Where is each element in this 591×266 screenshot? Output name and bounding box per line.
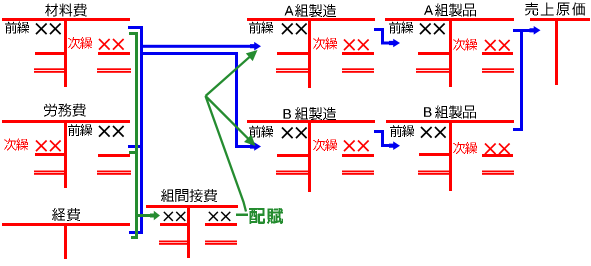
account B組製造: credit double rule <box>342 171 374 175</box>
wire collector to B組製造 (blue): lower horizontal <box>238 145 251 148</box>
account A組製品: credit single rule <box>482 52 513 55</box>
account A組製造: debit 前繰 label <box>249 22 273 34</box>
wire blue collector trunk <box>140 26 143 234</box>
account B組製造: credit 次繰 label <box>313 139 337 151</box>
account B組製造: debit single rule <box>277 154 311 157</box>
wire B組製品 to 売上原価 (blue): riser <box>520 29 523 131</box>
wire B組製造 to B組製品 (blue): riser <box>381 130 384 147</box>
account 材料費: debit amount xx <box>35 23 61 35</box>
account A組製品: credit amount xx <box>484 39 510 51</box>
account B組製品: top rule <box>386 120 514 123</box>
wire B組製造 to B組製品 (blue): upper <box>374 130 384 133</box>
account A組製品: center rule <box>449 18 452 87</box>
account 組間接費: top rule <box>146 205 238 208</box>
account A組製造: credit amount xx <box>343 39 369 51</box>
wire 労務費 to collector (blue) <box>128 145 143 148</box>
account 材料費: credit double rule <box>97 68 131 73</box>
account 材料費: top rule <box>2 18 130 21</box>
account A組製造: top rule <box>247 18 375 21</box>
account 売上原価: center rule <box>555 18 558 85</box>
arrow into A組製造 (blue) <box>250 42 261 51</box>
account A組製造: title <box>285 4 337 17</box>
account 労務費: credit single rule <box>98 154 130 157</box>
account 労務費: credit double rule <box>97 171 131 175</box>
account B組製造: credit amount xx <box>343 140 369 152</box>
account B組製造: debit double rule <box>276 171 311 175</box>
account 組間接費: title <box>161 189 217 202</box>
account 組間接費: debit amount xx <box>163 211 185 221</box>
wire A組製品 to 売上原価 (blue) <box>513 29 530 32</box>
account B組製造: debit amount xx <box>281 127 307 139</box>
account A組製品: top rule <box>385 18 514 21</box>
account 組間接費: credit single rule <box>205 223 237 226</box>
wire A組製造 to A組製品 (blue): upper <box>374 28 384 31</box>
account A組製品: debit amount xx <box>419 23 445 35</box>
account B組製造: credit single rule <box>342 154 374 157</box>
account A組製造: debit single rule <box>277 52 311 55</box>
account A組製品: title <box>424 4 476 17</box>
account A組製品: credit double rule <box>482 68 514 73</box>
account 材料費: title <box>45 4 87 17</box>
account 労務費: debit double rule <box>34 171 67 175</box>
wire collector to B組製造 (blue): riser <box>235 52 238 148</box>
account 労務費: title <box>44 104 86 117</box>
account A組製造: debit amount xx <box>281 23 307 35</box>
wire 材料費 to collector (blue) <box>128 26 143 29</box>
arrow into A組製品 (blue) <box>389 39 400 48</box>
wire 配賦 tick to credit xx (green) <box>236 214 248 217</box>
account B組製品: debit amount xx <box>420 126 446 138</box>
account 労務費: credit amount xx <box>98 125 124 137</box>
account A組製造: credit double rule <box>342 68 374 73</box>
account 労務費: top rule <box>2 120 130 123</box>
account 組間接費: credit double rule <box>205 241 237 245</box>
wire 労務費 to overhead collector (green) <box>129 151 138 154</box>
account B組製造: top rule <box>247 120 375 123</box>
account B組製造: debit 前繰 label <box>249 126 273 138</box>
wire collector to A組製造 (blue) <box>143 45 250 48</box>
account 労務費: debit amount xx <box>35 140 61 152</box>
wire A組製造 to A組製品 (blue): lower <box>381 42 390 45</box>
account B組製品: credit amount xx <box>484 143 510 155</box>
wire A組製造 to A組製品 (blue): riser <box>381 28 384 44</box>
account 売上原価: title <box>525 3 585 16</box>
account 経費: top rule <box>2 223 130 226</box>
wire collector to B組製造 (blue): horizontal <box>143 52 237 55</box>
account 労務費: debit 次繰 label <box>4 139 28 151</box>
wire 配賦 fan to B組製造 (green) <box>206 96 250 140</box>
account B組製品: credit single rule <box>482 154 513 157</box>
arrow into 組間接費 (green) <box>150 211 160 220</box>
account 材料費: debit 前繰 label <box>5 22 29 34</box>
arrow 配賦 into B組製造 (green) <box>244 135 255 146</box>
wire 経費 to overhead collector (green) <box>131 236 138 239</box>
account 労務費: debit single rule <box>35 153 67 156</box>
account 経費: title <box>52 208 80 221</box>
account B組製品: credit double rule <box>482 171 514 175</box>
wire B組製造 to B組製品 (blue): lower <box>381 144 390 147</box>
account 材料費: credit 次繰 label <box>68 37 92 49</box>
account B組製品: center rule <box>449 120 452 191</box>
account 材料費: debit single rule <box>35 52 67 55</box>
account B組製造: center rule <box>308 120 311 192</box>
account A組製造: center rule <box>308 18 311 88</box>
account A組製品: debit single rule <box>418 52 452 55</box>
account A組製造: credit single rule <box>342 52 374 55</box>
account A組製造: debit double rule <box>276 68 311 73</box>
account 経費: center rule <box>64 223 67 259</box>
account A組製品: debit double rule <box>416 68 452 73</box>
account A組製造: credit 次繰 label <box>313 38 337 50</box>
account B組製造: title <box>284 107 337 120</box>
wire 配賦 fan to A組製造 (green) <box>206 56 252 96</box>
account B組製品: debit double rule <box>418 171 452 175</box>
wire green overhead trunk <box>135 32 138 239</box>
wire 経費 to collector (blue) <box>129 231 143 234</box>
account B組製品: title <box>424 106 476 119</box>
account 組間接費: center rule <box>187 205 190 258</box>
account A組製品: debit 前繰 label <box>389 22 413 34</box>
account 組間接費: debit double rule <box>159 241 190 245</box>
account 労務費: credit 前繰 label <box>68 124 92 136</box>
account 材料費: credit amount xx <box>98 38 124 50</box>
label 配賦 (green) <box>249 208 283 224</box>
arrow into B組製造 (blue) <box>250 142 261 151</box>
account 組間接費: credit amount xx <box>208 211 230 221</box>
wire B組製品 to 売上原価 (blue): horizontal <box>513 128 523 131</box>
account B組製品: credit 次繰 label <box>453 142 477 154</box>
account 材料費: center rule <box>64 18 67 87</box>
account A組製品: credit 次繰 label <box>453 39 477 51</box>
account 材料費: credit single rule <box>98 52 130 55</box>
wire 配賦 fan leader (green) <box>206 96 247 212</box>
wire collector to 組間接費 (green) <box>138 214 151 217</box>
account 労務費: center rule <box>64 120 67 188</box>
account B組製品: debit single rule <box>419 153 452 156</box>
arrow into 売上原価 (blue) <box>530 26 541 35</box>
arrow 配賦 into A組製造 (green) <box>246 50 258 61</box>
account B組製品: debit 前繰 label <box>390 125 414 137</box>
wire 材料費 to overhead collector (green) <box>129 32 138 35</box>
account 組間接費: debit single rule <box>160 223 190 226</box>
account 材料費: debit double rule <box>34 68 67 73</box>
arrow into B組製品 (blue) <box>389 141 400 150</box>
account 売上原価: top rule <box>530 18 590 21</box>
